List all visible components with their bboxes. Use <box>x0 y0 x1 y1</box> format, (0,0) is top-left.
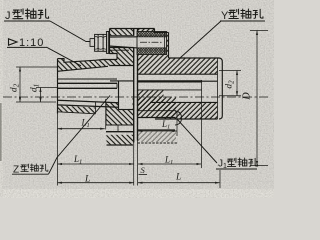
thick keyway bottom line <box>138 80 203 82</box>
right hub top edge <box>169 58 223 62</box>
slot divider tick <box>117 125 119 131</box>
right bottom hub hatch <box>164 102 218 118</box>
keyway top line <box>58 78 118 80</box>
pin body <box>109 36 138 38</box>
taper symbol and 1:10 <box>9 39 18 45</box>
left hub hole top taper line <box>58 66 109 71</box>
keyway line right <box>138 73 218 75</box>
right flange hatch above sleeve <box>138 29 155 32</box>
right hub bottom outline <box>155 118 218 120</box>
taper 1:10 leader <box>47 47 81 65</box>
light hatch below slot <box>138 132 176 143</box>
elastic sleeve stipple top <box>137 32 166 37</box>
right flange right face <box>168 32 170 58</box>
bottom left Z partial: bore bottom line <box>58 100 119 103</box>
Z label leader <box>49 96 111 175</box>
counterbore bottom line <box>119 109 134 111</box>
Y label leader <box>180 21 221 58</box>
break edge vertical <box>95 102 97 114</box>
elastic sleeve stipple bottom <box>137 48 166 54</box>
svg-text:D: D <box>242 92 253 101</box>
flange hatch bottom line <box>106 124 134 126</box>
svg-text:J: J <box>5 10 11 22</box>
bore top right thin <box>202 80 218 82</box>
pin end left <box>90 39 95 47</box>
left flange hatch above pin hole <box>110 29 134 36</box>
nut <box>95 34 107 51</box>
left hub hatch top <box>58 59 118 72</box>
Z label underline <box>12 173 49 175</box>
right hub chamfer inner line <box>217 58 219 119</box>
left flange left face <box>110 29 118 60</box>
pin hole lines left flange <box>110 35 134 37</box>
Z hatch band <box>58 106 96 114</box>
arrows <box>19 31 258 184</box>
slot right arc <box>175 111 182 125</box>
bore top line <box>58 87 118 89</box>
sleeve inner lines <box>137 36 167 38</box>
J1 label leader <box>177 119 217 163</box>
dimension d2 left: vertical <box>16 67 58 102</box>
right flange hatch below sleeve <box>138 55 169 74</box>
sleeve end cap <box>164 32 166 55</box>
recess line 80.9 <box>110 80 134 82</box>
svg-text:Y: Y <box>221 10 229 22</box>
right hub hatch top <box>169 58 218 74</box>
flange top edge <box>110 28 155 30</box>
break line <box>58 112 96 114</box>
mating face left <box>133 29 135 36</box>
J label leader <box>50 21 90 42</box>
slot top line right <box>138 117 175 119</box>
sleeve outline <box>137 32 167 55</box>
keyway end tick <box>116 83 118 88</box>
svg-text:Z: Z <box>13 165 19 176</box>
right flange bottom edge <box>138 142 178 144</box>
right bottom flange hatch <box>138 98 176 118</box>
left hub left face <box>57 59 59 114</box>
svg-text:L: L <box>175 173 181 183</box>
recess shelf line <box>110 65 134 67</box>
bottom left flange hatch block <box>106 98 134 125</box>
inner boundary line <box>138 110 176 112</box>
Y label underline <box>220 20 265 22</box>
keyway line bottom <box>58 105 119 107</box>
dimension d2/D right <box>219 31 268 166</box>
J1 label underline <box>216 168 257 170</box>
lower flange hatch band <box>107 135 134 145</box>
right flange hatch low <box>138 90 164 111</box>
right bore bottom line <box>150 101 218 103</box>
left flange bottom edge <box>107 144 134 146</box>
right flange sliver right of sleeve <box>167 32 169 54</box>
flange step at 154.5 <box>155 29 169 33</box>
J label underline <box>4 20 50 22</box>
left bottom flange face <box>105 103 107 125</box>
line y=89 <box>138 89 203 91</box>
svg-text:1:10: 1:10 <box>19 37 44 49</box>
mating face right <box>137 29 139 32</box>
svg-text:L: L <box>84 175 90 185</box>
centerline <box>3 96 268 98</box>
taper 1:10 underline <box>7 46 47 48</box>
slot bottom line right <box>138 129 175 131</box>
counterbore left edge <box>118 82 120 110</box>
pin center line in sleeve <box>140 41 163 43</box>
washer <box>107 32 109 54</box>
right hub right face <box>219 62 222 120</box>
S label underline <box>139 173 148 175</box>
left hub outline top <box>58 59 118 63</box>
heavy line under slot <box>106 131 134 133</box>
left flange hatch below pin hole <box>110 48 134 66</box>
dimension rows <box>58 129 220 183</box>
extension verticals bottom <box>58 80 221 188</box>
